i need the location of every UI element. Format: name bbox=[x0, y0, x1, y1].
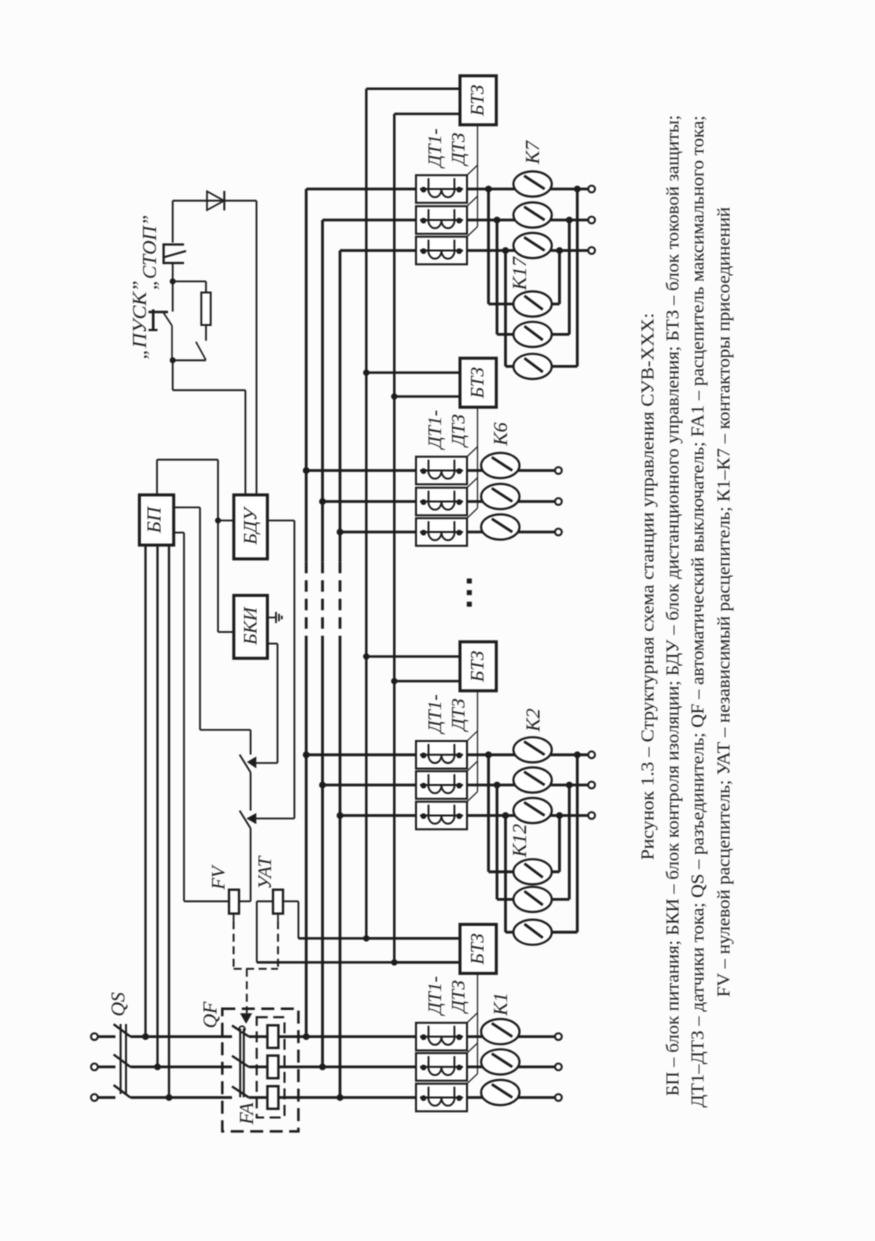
svg-text:К12: К12 bbox=[509, 824, 531, 858]
svg-text:БТЗ: БТЗ bbox=[468, 933, 489, 965]
svg-text:УАТ: УАТ bbox=[255, 855, 276, 889]
svg-text:„ПУСК”: „ПУСК” bbox=[129, 281, 151, 360]
svg-text:FV – нулевой расцепитель; УАТ: FV – нулевой расцепитель; УАТ – независи… bbox=[714, 207, 734, 997]
svg-text:БП – блок питания; БКИ – блок: БП – блок питания; БКИ – блок контроля и… bbox=[663, 115, 683, 1096]
svg-text:„СТОП”: „СТОП” bbox=[139, 215, 161, 290]
svg-text:БКИ: БКИ bbox=[241, 606, 262, 646]
svg-text:К2: К2 bbox=[523, 708, 545, 732]
svg-text:QF: QF bbox=[200, 1001, 222, 1028]
svg-text:БТЗ: БТЗ bbox=[468, 85, 489, 117]
svg-text:ДТЗ: ДТЗ bbox=[449, 980, 470, 1014]
svg-text:ДТЗ: ДТЗ bbox=[449, 133, 470, 167]
svg-text:QS: QS bbox=[108, 992, 130, 1016]
svg-text:Рисунок 1.3 – Структурная схем: Рисунок 1.3 – Структурная схема станции … bbox=[638, 313, 658, 860]
svg-text:ДТ1-: ДТ1- bbox=[425, 128, 446, 168]
svg-text:ДТЗ: ДТЗ bbox=[449, 698, 470, 732]
svg-text:FV: FV bbox=[209, 864, 230, 891]
svg-text:ДТ1–ДТЗ – датчики тока; QS – р: ДТ1–ДТЗ – датчики тока; QS – разъедините… bbox=[688, 116, 708, 1108]
svg-text:БТЗ: БТЗ bbox=[468, 651, 489, 683]
svg-text:К17: К17 bbox=[509, 256, 531, 291]
svg-text:ДТ1-: ДТ1- bbox=[425, 976, 446, 1016]
svg-text:К6: К6 bbox=[490, 422, 512, 446]
svg-text:К7: К7 bbox=[522, 140, 544, 165]
svg-text:ДТЗ: ДТЗ bbox=[449, 414, 470, 448]
svg-text:ДТ1-: ДТ1- bbox=[425, 694, 446, 734]
svg-text:БП: БП bbox=[144, 505, 166, 534]
svg-text:К1: К1 bbox=[490, 992, 512, 1016]
svg-text:ДТ1-: ДТ1- bbox=[425, 410, 446, 450]
svg-text:БТЗ: БТЗ bbox=[468, 367, 489, 399]
svg-text:FA: FA bbox=[236, 1102, 258, 1126]
svg-text:БДУ: БДУ bbox=[241, 506, 262, 546]
